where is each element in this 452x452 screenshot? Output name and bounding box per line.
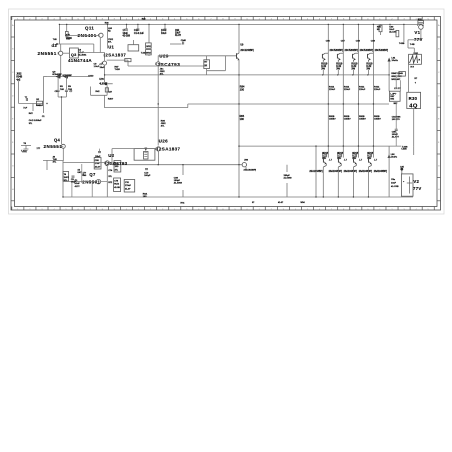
- svg-text:220uF: 220uF: [344, 89, 351, 91]
- svg-text:R04B: R04B: [16, 77, 22, 79]
- svg-text:T-00B: T-00B: [401, 149, 407, 151]
- svg-text:41-009: 41-009: [123, 35, 131, 38]
- svg-text:10uF: 10uF: [161, 32, 167, 35]
- svg-text:2SA1943BP]: 2SA1943BP]: [374, 170, 388, 173]
- svg-text:C92: C92: [175, 30, 180, 32]
- svg-text:5R: 5R: [377, 29, 380, 31]
- svg-text:41-0069: 41-0069: [284, 178, 293, 180]
- svg-text:C92B?: C92B?: [344, 119, 351, 121]
- svg-text:2SC5200BP]: 2SC5200BP]: [360, 50, 374, 52]
- svg-text:T-00B: T-00B: [399, 43, 405, 45]
- svg-text:41-0?: 41-0?: [175, 35, 182, 37]
- svg-text:R R: R R: [411, 66, 415, 68]
- svg-text:2SA1943BP]: 2SA1943BP]: [329, 170, 343, 173]
- svg-text:41-H?7: 41-H?7: [392, 137, 400, 139]
- svg-text:C040: C040: [88, 76, 94, 78]
- svg-text:2SC5200BP]: 2SC5200BP]: [375, 50, 389, 52]
- svg-text:2SC5200BP]: 2SC5200BP]: [330, 50, 344, 52]
- svg-text:(15uF: (15uF: [95, 156, 101, 158]
- svg-text:C92B?: C92B?: [359, 119, 366, 121]
- svg-text:2N5551: 2N5551: [38, 51, 57, 56]
- svg-text:C4-2 0.056uF: C4-2 0.056uF: [29, 120, 42, 122]
- svg-text:Q3: Q3: [71, 52, 77, 57]
- svg-text:J002: J002: [16, 74, 22, 76]
- svg-text:2N5551: 2N5551: [44, 144, 63, 149]
- svg-text:C92B?: C92B?: [329, 119, 336, 121]
- svg-text:3N: 3N: [60, 86, 63, 88]
- svg-text:10uF: 10uF: [175, 33, 181, 35]
- svg-text:1?uF: 1?uF: [95, 163, 100, 165]
- svg-text:41-0?: 41-0?: [95, 166, 101, 168]
- svg-text:15uF: 15uF: [100, 67, 106, 69]
- svg-text:R40?: R40?: [108, 99, 114, 101]
- svg-text:C92B?: C92B?: [374, 119, 381, 121]
- svg-text:41-0069: 41-0069: [174, 183, 183, 185]
- svg-text:U26: U26: [159, 138, 169, 143]
- svg-text:W02: W02: [146, 46, 151, 48]
- svg-text:100: 100: [240, 118, 245, 121]
- svg-text:U2: U2: [108, 153, 114, 158]
- svg-text:160pF: 160pF: [144, 175, 151, 177]
- svg-text:15uF: 15uF: [71, 182, 77, 184]
- svg-text:L?1 1?: L?1 1?: [394, 88, 401, 90]
- svg-text:C1-0.1uF: C1-0.1uF: [134, 32, 145, 35]
- svg-text:220uF: 220uF: [374, 89, 381, 91]
- svg-text:R94P R949: R94P R949: [391, 73, 403, 75]
- svg-text:TH20: TH20: [115, 69, 121, 71]
- svg-text:2SC2240BP]: 2SC2240BP]: [240, 50, 254, 52]
- svg-text:1H0?: 1H0?: [64, 177, 70, 179]
- svg-text:U1: U1: [108, 45, 114, 50]
- svg-text:100: 100: [240, 89, 245, 92]
- svg-text:220uF: 220uF: [359, 89, 366, 91]
- svg-text:C040: C040: [181, 40, 187, 42]
- svg-text:7uF: 7uF: [23, 108, 27, 110]
- svg-text:2SA1943BP]: 2SA1943BP]: [244, 168, 257, 171]
- svg-text:2SC5200BP]: 2SC5200BP]: [345, 50, 359, 52]
- svg-text:Q4: Q4: [54, 137, 61, 142]
- svg-text:41N4744A: 41N4744A: [68, 58, 92, 63]
- svg-text:R30: R30: [409, 96, 418, 101]
- svg-text:1?0uF: 1?0uF: [125, 185, 132, 187]
- svg-text:10uHz: 10uHz: [391, 157, 397, 159]
- svg-text:2SA1943BP]: 2SA1943BP]: [359, 170, 373, 173]
- svg-text:77V: 77V: [413, 186, 422, 191]
- svg-text:V1: V1: [414, 30, 420, 35]
- svg-text:41-0?: 41-0?: [278, 202, 284, 204]
- svg-text:220uF: 220uF: [329, 89, 336, 91]
- svg-text:R4B2: R4B2: [36, 105, 42, 107]
- svg-text:2SA1943BP]: 2SA1943BP]: [344, 170, 358, 173]
- svg-text:R9A: R9A: [143, 193, 148, 196]
- svg-text:10uF: 10uF: [391, 183, 397, 185]
- svg-text:T-0B: T-0B: [410, 44, 415, 46]
- svg-text:41-C0B: 41-C0B: [391, 186, 399, 188]
- svg-text:41C?: 41C?: [75, 186, 81, 188]
- svg-text:V2: V2: [413, 179, 419, 184]
- svg-text:W02: W02: [146, 52, 151, 54]
- svg-text:(2SA1837: (2SA1837: [104, 52, 127, 57]
- svg-text:41-0?: 41-0?: [125, 188, 131, 190]
- svg-text:3N: 3N: [68, 86, 71, 88]
- svg-text:41-4034: 41-4034: [78, 55, 87, 57]
- svg-text:U?8: U?8: [99, 79, 104, 81]
- svg-text:1.5uF: 1.5uF: [94, 66, 100, 68]
- svg-text:10uHz: 10uHz: [392, 60, 398, 62]
- svg-text:41-0B: 41-0B: [114, 187, 120, 189]
- svg-text:PAJ2: PAJ2: [114, 183, 120, 186]
- svg-text:Q7: Q7: [89, 172, 96, 177]
- svg-text:Q11: Q11: [85, 26, 94, 31]
